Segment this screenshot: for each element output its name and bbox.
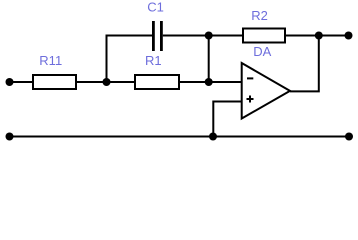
svg-text:R2: R2 [251,8,268,23]
node junction C [315,32,323,40]
svg-text:R11: R11 [39,53,62,68]
node bottom-right terminal [345,133,353,141]
wire top to C1 [106,35,153,37]
node junction B [205,32,213,40]
resistor R1 [135,75,179,89]
node junction D [205,78,213,86]
svg-text:DA: DA [253,44,271,59]
node bottom-left terminal [6,133,14,141]
bottom rail wire [10,136,350,138]
op-amp minus sign [247,77,253,79]
resistor R2 [243,29,285,43]
resistor R11 [33,75,76,89]
svg-text:C1: C1 [147,0,164,15]
wire junction A up [106,36,108,83]
wire output down [290,36,319,92]
wire R11 to R1 [76,81,135,83]
node output terminal [345,32,353,40]
svg-text:R1: R1 [145,53,162,68]
node junction A [103,78,111,86]
op-amp plus sign [247,96,254,103]
op-amp DA [242,63,290,119]
wire plus input [213,102,241,137]
node bottom junction [209,133,217,141]
node input terminal [6,78,14,86]
capacitor C1 [152,21,163,51]
wire R1 to op-amp minus input [179,81,242,83]
wire R2 to output [285,35,349,37]
wire input left to R11 [10,81,34,83]
wire C1 to R2 [163,35,243,37]
wire junction B down [208,36,210,83]
